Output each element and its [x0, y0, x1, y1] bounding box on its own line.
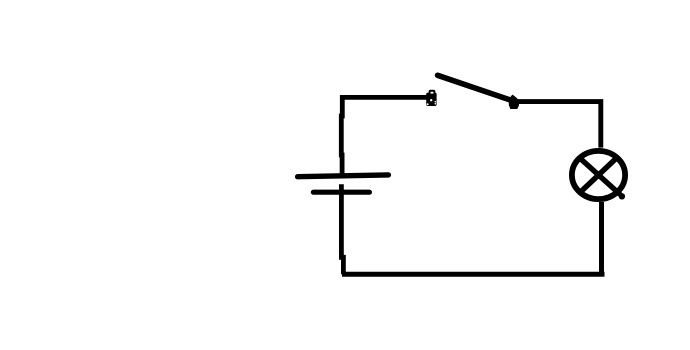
battery B1 short plate — [313, 190, 369, 195]
lamp L1 cross stroke 1 — [581, 159, 620, 194]
lamp L1 circle — [572, 151, 625, 199]
wire right lower (lamp to bottom) — [599, 202, 604, 276]
lamp L1 cross stroke 2 — [581, 159, 617, 193]
battery B1 long plate — [298, 175, 389, 177]
switch S1 left terminal — [426, 91, 436, 106]
switch S1 right terminal — [509, 95, 519, 108]
lamp L1 pen blob — [619, 193, 625, 199]
wire battery negative lead down — [341, 184, 343, 274]
switch S1 blade (open) — [438, 75, 512, 100]
wire top-right (switch to lamp) — [516, 102, 601, 148]
wire top-left (battery positive lead up and right to switch) — [341, 97, 427, 175]
wire bottom — [342, 272, 605, 277]
